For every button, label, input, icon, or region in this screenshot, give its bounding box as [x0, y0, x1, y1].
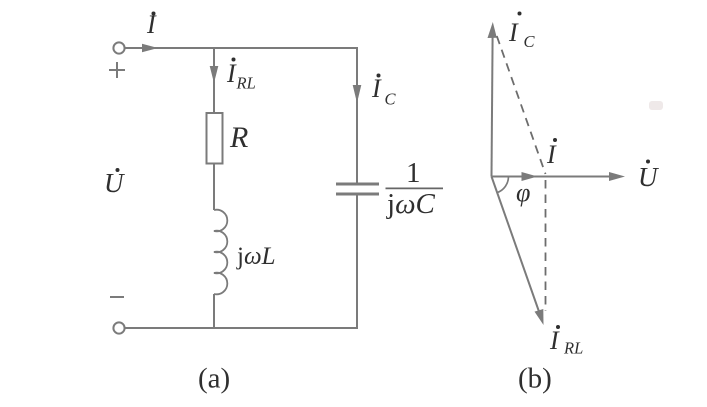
svg-text:U: U [104, 168, 125, 198]
svg-text:1: 1 [406, 157, 421, 189]
svg-text:I: I [226, 59, 237, 88]
svg-text:U: U [638, 162, 659, 192]
svg-text:φ: φ [516, 178, 530, 207]
svg-text:RL: RL [563, 339, 583, 358]
svg-text:C: C [524, 32, 536, 51]
svg-text:I: I [549, 326, 560, 355]
svg-text:(a): (a) [198, 363, 230, 395]
svg-text:jωC: jωC [386, 188, 436, 220]
svg-text:I: I [146, 10, 157, 39]
svg-text:C: C [385, 90, 397, 109]
svg-text:jωL: jωL [236, 243, 276, 270]
svg-text:I: I [508, 18, 519, 47]
svg-text:RL: RL [236, 74, 256, 93]
svg-text:I: I [546, 140, 557, 169]
svg-text:I: I [371, 74, 382, 103]
svg-text:R: R [229, 121, 248, 154]
svg-text:(b): (b) [518, 363, 552, 395]
